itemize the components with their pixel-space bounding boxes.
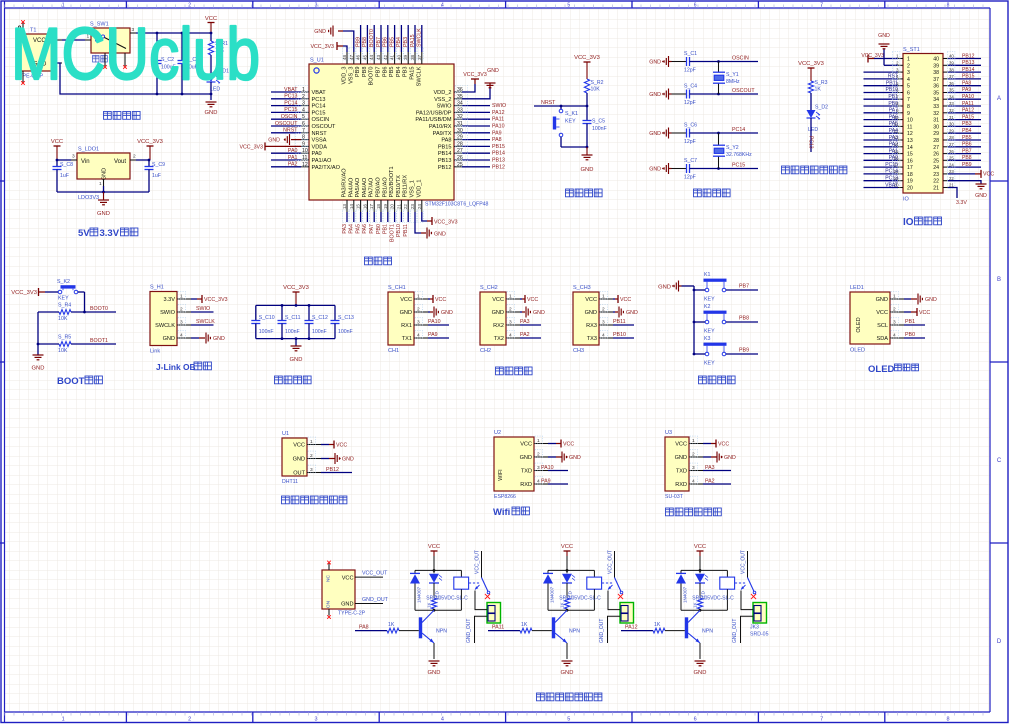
- svg-text:23: 23: [933, 172, 939, 178]
- svg-text:VCC: VCC: [919, 310, 930, 316]
- svg-text:1K: 1K: [427, 601, 432, 608]
- U1 pin 27 (PB14) right: [438, 147, 505, 158]
- svg-text:2: 2: [893, 307, 896, 313]
- svg-text:SCL: SCL: [877, 323, 888, 329]
- svg-text:MCUclub: MCUclub: [11, 14, 260, 96]
- svg-text:PB15: PB15: [962, 74, 975, 80]
- svg-text:3: 3: [315, 3, 318, 9]
- svg-text:22: 22: [933, 179, 939, 185]
- svg-text:GND: GND: [561, 670, 574, 676]
- svg-text:PB9: PB9: [739, 348, 749, 354]
- svg-text:TX2: TX2: [494, 336, 504, 342]
- svg-text:5: 5: [907, 84, 910, 90]
- power VCC (U3): [703, 440, 729, 448]
- svg-text:2: 2: [692, 452, 695, 458]
- svg-text:PA10: PA10: [428, 319, 441, 325]
- svg-text:Wifi: Wifi: [493, 507, 510, 518]
- LED1 pin 2 (VCC): [876, 305, 904, 316]
- U1 pin 30 (PA9/TX) right: [433, 126, 502, 137]
- S_H1 pin 3 (SWCLK): [155, 318, 191, 329]
- svg-text:S_K2: S_K2: [57, 279, 70, 285]
- svg-text:PA12: PA12: [625, 625, 638, 631]
- wire relay contact to terminal pin1: [475, 591, 487, 610]
- S_ST1 pin 3 left: [864, 65, 911, 76]
- S_H1 pin 4 (GND): [163, 331, 191, 342]
- svg-text:A: A: [997, 96, 1001, 102]
- title 复位电路 (reset circuit): [566, 189, 574, 197]
- junction: [37, 343, 40, 346]
- svg-text:VCC: VCC: [718, 442, 729, 448]
- S_ST1 pin 10 left: [864, 113, 913, 124]
- S_ST1 pin 12 left: [864, 126, 913, 137]
- S_ST1 pin 11 left: [864, 120, 913, 131]
- svg-text:S_CH2: S_CH2: [480, 285, 498, 291]
- svg-text:45: 45: [362, 54, 367, 60]
- U1 pin 25 (PB12) right: [438, 160, 505, 171]
- svg-text:15: 15: [907, 152, 913, 158]
- junction: [156, 32, 159, 35]
- S_ST1 pin 20 left: [864, 181, 913, 192]
- connector stub marks: [327, 561, 331, 619]
- U1 pin 18 (PB0/AO) bottom: [376, 177, 383, 234]
- svg-text:18: 18: [376, 204, 381, 210]
- svg-text:GND: GND: [492, 310, 504, 316]
- svg-text:PB14: PB14: [492, 151, 505, 157]
- svg-text:VCC: VCC: [400, 297, 412, 303]
- svg-text:NPN: NPN: [436, 629, 447, 635]
- no-connect mark on relay contact: [485, 594, 490, 599]
- wire S_R4 left to GND column: [38, 311, 59, 313]
- U1 pin 2 (GND): [293, 451, 321, 462]
- U1 pin 33 (PA12/USB/DP) right: [416, 106, 505, 117]
- pushbutton K2 KEY: [704, 304, 727, 335]
- wire S_R4 right to BOOT0: [71, 311, 116, 313]
- ground GND at U1 VSS_2: [485, 68, 500, 88]
- connector S_ST1 body (IO header): [903, 47, 943, 203]
- svg-text:PB8: PB8: [739, 316, 749, 322]
- junction: [699, 569, 702, 572]
- junction: [433, 609, 436, 612]
- junction: [693, 321, 696, 324]
- wire S_R5 row BOOT1: [38, 343, 59, 345]
- ground GND (crystal S_C4): [649, 89, 668, 100]
- svg-text:32: 32: [933, 111, 939, 117]
- wire S_CH3 VCC: [613, 298, 615, 300]
- terminal JK3 designator: [750, 625, 769, 638]
- ground GND of power circuit: [205, 102, 218, 116]
- wire S_CH3 RX net PB11: [613, 324, 634, 326]
- relay loop bottom rail wire: [415, 609, 461, 611]
- svg-text:S_CH3: S_CH3: [573, 285, 591, 291]
- svg-text:PB12: PB12: [326, 467, 339, 473]
- LED1 pin 3 (SCL): [877, 318, 904, 329]
- wire VCC node to resistor S_R1: [210, 33, 212, 41]
- svg-text:S_C1: S_C1: [684, 51, 697, 57]
- svg-text:1N4007: 1N4007: [683, 586, 688, 603]
- svg-text:GND: GND: [341, 602, 353, 608]
- svg-text:40: 40: [933, 57, 939, 63]
- wire S_H1 pin2 SWIO: [191, 311, 214, 313]
- svg-text:PA10: PA10: [541, 465, 554, 471]
- svg-text:PC14: PC14: [732, 127, 745, 133]
- svg-text:1K: 1K: [654, 622, 661, 628]
- junction: [693, 353, 696, 356]
- svg-text:4: 4: [893, 333, 896, 339]
- U1 pin 3 (PC14) left: [271, 99, 326, 110]
- svg-text:J-Link OB: J-Link OB: [156, 362, 196, 372]
- junction: [102, 191, 105, 194]
- svg-text:VCC_3V3: VCC_3V3: [463, 72, 487, 78]
- U1 pin 15 (PA5/AO) bottom: [355, 177, 362, 234]
- S_ST1 pin 32 right: [933, 106, 981, 117]
- S_ST1 pin 19 left: [864, 174, 913, 185]
- ground GND of LDO circuit: [97, 192, 110, 217]
- power VCC (relay PA12): [694, 544, 706, 570]
- svg-text:PB10: PB10: [613, 332, 626, 338]
- svg-text:GND: GND: [97, 211, 110, 217]
- S_ST1 pin 28 right: [933, 133, 981, 144]
- power VCC_3V3 (indicator): [798, 61, 824, 81]
- power VCC (U2): [548, 440, 574, 448]
- U1 pin 31 (PA10/RX) right: [429, 120, 505, 131]
- wire terminal pin2 GND_OUT tail: [741, 616, 754, 643]
- power VCC_3V3 at U1 VDDA pin9: [239, 142, 301, 150]
- svg-text:26: 26: [933, 152, 939, 158]
- svg-text:NPN: NPN: [702, 629, 713, 635]
- svg-text:VCC: VCC: [342, 575, 354, 581]
- capacitor S_C12 100nF: [305, 305, 328, 338]
- S_CH1 pin 4 (TX1): [402, 331, 428, 342]
- terminal block JK (screw connector): [753, 603, 767, 624]
- svg-text:GND: GND: [724, 455, 736, 461]
- svg-text:SWIO: SWIO: [437, 104, 453, 110]
- svg-text:S_C13: S_C13: [338, 315, 354, 321]
- svg-text:GND: GND: [441, 310, 453, 316]
- T1 shield stub top with no-ERC marks: [18, 20, 24, 34]
- svg-text:SRD-05: SRD-05: [750, 632, 769, 638]
- S_ST1 pin 2 left: [884, 49, 910, 69]
- svg-text:12pF: 12pF: [684, 68, 696, 74]
- svg-text:BOOT1: BOOT1: [90, 338, 108, 344]
- svg-text:BOOT: BOOT: [57, 376, 85, 387]
- S_ST1 pin 1 left: [861, 52, 910, 63]
- power VCC (OLED): [917, 308, 930, 316]
- svg-text:SWCLK: SWCLK: [196, 319, 215, 325]
- svg-text:2: 2: [537, 452, 540, 458]
- svg-text:33: 33: [933, 104, 939, 110]
- relay loop bottom rail wire: [548, 609, 594, 611]
- svg-text:PA8: PA8: [359, 625, 369, 631]
- svg-text:1: 1: [602, 294, 605, 300]
- S_CH2 pin 2 (GND): [492, 305, 520, 316]
- U2 pin 4 (RXD): [520, 477, 548, 488]
- svg-text:3: 3: [907, 70, 910, 76]
- junction: [181, 93, 184, 96]
- svg-text:NRST: NRST: [283, 128, 298, 134]
- svg-text:NRST: NRST: [312, 131, 328, 137]
- wire crystal S_Y2 branch: [718, 133, 720, 145]
- svg-text:4: 4: [509, 333, 512, 339]
- svg-text:PB4: PB4: [396, 37, 402, 47]
- svg-text:PA10: PA10: [962, 94, 974, 100]
- wire VCC to LDO Vin: [57, 159, 71, 161]
- svg-text:VCC: VCC: [293, 443, 305, 449]
- svg-text:GND: GND: [102, 168, 108, 180]
- svg-text:PA6/AO: PA6/AO: [362, 177, 368, 197]
- svg-text:OLED: OLED: [856, 317, 862, 332]
- junction: [566, 569, 569, 572]
- module U1 (DHT11) body: [282, 431, 307, 485]
- U1 pin 14 (PA4/AO) bottom: [348, 177, 355, 234]
- capacitor S_C8 1uF: [53, 160, 74, 192]
- S_ST1 pin 34 right: [933, 92, 981, 103]
- T1 pin 2 (GND): [52, 57, 62, 63]
- svg-text:40: 40: [396, 54, 401, 60]
- svg-text:BOOT0: BOOT0: [90, 306, 108, 312]
- svg-text:S_C4: S_C4: [684, 84, 697, 90]
- power VCC_3V3 at U1 VDD_2: [463, 72, 487, 79]
- svg-text:10K: 10K: [58, 316, 68, 322]
- svg-text:VSS_1: VSS_1: [410, 180, 416, 197]
- svg-text:S_C8: S_C8: [60, 162, 73, 168]
- wire cap S_C2 branch: [156, 33, 158, 61]
- svg-text:22: 22: [403, 204, 408, 210]
- svg-text:PB13: PB13: [492, 158, 505, 164]
- wire K2 left: [694, 321, 705, 323]
- U1 pin 9 (VDDA) left: [296, 140, 328, 151]
- svg-text:OLED: OLED: [868, 364, 895, 375]
- svg-text:3: 3: [537, 465, 540, 471]
- wire LED S_D2 to net PC13: [810, 118, 812, 152]
- svg-text:KEY: KEY: [704, 329, 715, 335]
- svg-text:PA11: PA11: [492, 625, 504, 631]
- svg-text:1N4007: 1N4007: [550, 586, 555, 603]
- title 语音识别模块: [666, 508, 674, 516]
- wire K1 to net PB7: [726, 289, 758, 291]
- title 5V转3.3V电路: [78, 228, 138, 239]
- svg-text:PB11: PB11: [886, 81, 898, 87]
- svg-text:PA9: PA9: [962, 87, 971, 93]
- svg-text:OUT: OUT: [293, 471, 305, 477]
- power VCC at S_ST1 pin23: [948, 170, 994, 178]
- svg-text:SWIO: SWIO: [196, 306, 210, 312]
- svg-text:S_R5: S_R5: [58, 335, 71, 341]
- S_ST1 pin 30 right: [933, 120, 981, 131]
- svg-text:S_LDO1: S_LDO1: [78, 147, 99, 153]
- svg-text:4: 4: [441, 717, 444, 723]
- svg-text:PC14: PC14: [312, 104, 326, 110]
- svg-text:PA10: PA10: [492, 124, 505, 130]
- svg-text:IO: IO: [903, 197, 910, 203]
- svg-text:PA3: PA3: [342, 224, 348, 234]
- svg-text:1: 1: [537, 438, 540, 444]
- U1 pin 5 (OSCIN) left: [271, 113, 329, 124]
- relay loop top rail wire: [548, 569, 594, 571]
- svg-text:PB15: PB15: [438, 144, 452, 150]
- svg-text:VCC_3V3: VCC_3V3: [310, 44, 334, 50]
- transistor NPN: [685, 610, 713, 643]
- svg-text:PA7: PA7: [369, 224, 375, 234]
- svg-text:NPN: NPN: [569, 629, 580, 635]
- U1 pin 8 (VSSA) left: [296, 133, 327, 144]
- svg-text:PB7: PB7: [376, 67, 382, 78]
- svg-text:VCC: VCC: [336, 443, 347, 449]
- svg-text:PC15: PC15: [732, 163, 745, 169]
- resistor 1K (base): [621, 622, 685, 633]
- svg-text:VCC: VCC: [620, 297, 631, 303]
- title OLED显示屏: [868, 364, 919, 375]
- svg-text:PA5: PA5: [889, 121, 898, 127]
- title 滤波电路 (filter): [275, 376, 283, 384]
- svg-text:GND: GND: [520, 455, 532, 461]
- svg-text:17: 17: [907, 165, 913, 171]
- svg-text:LED1: LED1: [850, 285, 864, 291]
- svg-text:38: 38: [410, 54, 415, 60]
- wire K2 to net PB8: [726, 321, 758, 323]
- U1 pin 11 (PA1/AO) left: [271, 154, 332, 165]
- svg-text:28: 28: [933, 138, 939, 144]
- svg-text:38: 38: [933, 70, 939, 76]
- svg-text:PB8: PB8: [962, 155, 972, 161]
- wire T1 pin1 to switch S_SW1: [62, 39, 85, 41]
- S_ST1 pin 7 left: [864, 92, 911, 103]
- svg-text:1K: 1K: [560, 601, 565, 608]
- junction: [693, 289, 696, 292]
- ground GND (crystal S_C6): [649, 128, 668, 139]
- svg-text:VCC: VCC: [527, 297, 538, 303]
- junction: [83, 311, 86, 314]
- wire K3 left: [694, 353, 705, 355]
- svg-text:48: 48: [342, 54, 347, 60]
- svg-text:GND: GND: [268, 138, 280, 144]
- svg-text:VDD_1: VDD_1: [416, 179, 422, 197]
- svg-text:PB6: PB6: [962, 142, 972, 148]
- svg-text:13: 13: [342, 204, 347, 210]
- S_ST1 pin 24 right: [933, 160, 981, 171]
- svg-text:GND: GND: [213, 336, 225, 342]
- svg-text:OLED: OLED: [850, 348, 865, 354]
- junction: [566, 609, 569, 612]
- svg-text:30: 30: [933, 124, 939, 130]
- capacitor S_C5 100nF: [583, 106, 607, 147]
- svg-text:S_C12: S_C12: [312, 315, 328, 321]
- svg-text:9: 9: [907, 111, 910, 117]
- wire S_CH2 RX net PA3: [520, 324, 541, 326]
- ground GND at U1 VSSA pin8: [268, 134, 301, 145]
- svg-text:5: 5: [567, 3, 570, 9]
- U1 pin 2 (PC13) left: [271, 92, 326, 103]
- svg-text:21: 21: [933, 186, 939, 192]
- svg-text:1: 1: [509, 294, 512, 300]
- svg-text:U2: U2: [494, 430, 501, 436]
- wire crystal S_Y1 branch: [718, 62, 720, 73]
- svg-text:VCC_3V3: VCC_3V3: [574, 55, 600, 61]
- svg-text:PA4: PA4: [889, 128, 898, 134]
- title 温湿度检测模块: [282, 496, 290, 504]
- filter top rail wire: [256, 304, 335, 306]
- LED (relay indicator): [562, 570, 575, 600]
- LED S_D1: [207, 69, 230, 93]
- svg-text:PA8: PA8: [962, 81, 971, 87]
- junction: [699, 609, 702, 612]
- wire NPN emitter to GND: [566, 643, 568, 659]
- header S_CH3 body: [573, 285, 599, 354]
- net label NRST: [534, 100, 587, 106]
- U1 pin 39 (PB3) top: [403, 25, 410, 77]
- svg-text:OSCIN: OSCIN: [281, 114, 298, 120]
- svg-text:32.768KHz: 32.768KHz: [726, 152, 752, 158]
- LED S_D2: [807, 105, 829, 134]
- junction: [717, 60, 720, 63]
- S_ST1 pin 31 right: [933, 113, 981, 124]
- svg-text:PB14: PB14: [438, 151, 452, 157]
- svg-text:GND: GND: [569, 455, 581, 461]
- svg-text:TYPE-C-2P: TYPE-C-2P: [338, 611, 366, 617]
- svg-text:2: 2: [509, 307, 512, 313]
- svg-text:PA9: PA9: [541, 479, 551, 485]
- svg-text:S_C9: S_C9: [152, 162, 165, 168]
- S_CH2 pin 3 (RX2): [493, 318, 520, 329]
- U1 pin 17 (PA7/AO) bottom: [369, 177, 376, 234]
- svg-text:PC13: PC13: [885, 176, 898, 182]
- capacitor S_C11 100nF: [278, 305, 301, 338]
- svg-text:VCC_OUT: VCC_OUT: [475, 550, 481, 574]
- svg-text:VCC_3V3: VCC_3V3: [434, 220, 458, 226]
- svg-text:GND: GND: [649, 60, 661, 66]
- title IO拓展口 (IO expansion): [903, 217, 942, 228]
- S_ST1 pin 14 left: [864, 140, 913, 151]
- ground GND at S_ST1 pin22: [975, 184, 987, 199]
- wire capacitor S_C1 to net OSCIN: [690, 61, 759, 63]
- svg-text:PA0: PA0: [312, 151, 322, 157]
- resistor 1K (base): [488, 622, 552, 633]
- svg-text:39: 39: [403, 54, 408, 60]
- svg-text:PB6: PB6: [383, 37, 389, 47]
- svg-text:10K: 10K: [58, 348, 68, 354]
- wire capacitor S_C4 to net OSCOUT: [690, 93, 759, 95]
- svg-text:36: 36: [933, 84, 939, 90]
- pushbutton K3 KEY: [704, 336, 727, 367]
- svg-text:OSCIN: OSCIN: [312, 117, 330, 123]
- svg-text:GND: GND: [293, 457, 305, 463]
- junction: [433, 569, 436, 572]
- svg-text:BOOT0: BOOT0: [369, 29, 375, 47]
- U1 pin 1 (VCC): [293, 437, 321, 448]
- svg-text:TXD: TXD: [676, 469, 687, 475]
- svg-text:VCC_OUT: VCC_OUT: [608, 550, 614, 574]
- no-connect mark on relay contact: [751, 594, 756, 599]
- U1 pin 1 (VBAT) left: [271, 86, 326, 97]
- power VCC (LDO input): [51, 139, 63, 160]
- svg-text:23: 23: [410, 204, 415, 210]
- svg-text:4: 4: [602, 333, 605, 339]
- S_ST1 pin 23 right: [933, 167, 955, 178]
- relay switch contact: [469, 550, 490, 594]
- svg-text:GND: GND: [649, 167, 661, 173]
- capacitor S_C1 12pF: [684, 51, 697, 74]
- T1 shield stub bottom: [18, 71, 24, 85]
- crystal S_Y1 8MHz: [713, 72, 740, 85]
- junction: [717, 93, 720, 96]
- title BOOT电路: [57, 376, 102, 387]
- svg-text:C: C: [997, 458, 1002, 464]
- svg-text:4: 4: [417, 333, 420, 339]
- S_ST1 pin 13 left: [864, 133, 913, 144]
- ground GND (crystal S_C1): [649, 56, 668, 67]
- resistor S_R5 10K: [58, 335, 71, 355]
- svg-text:PA11: PA11: [962, 101, 974, 107]
- svg-text:S_C6: S_C6: [684, 123, 697, 129]
